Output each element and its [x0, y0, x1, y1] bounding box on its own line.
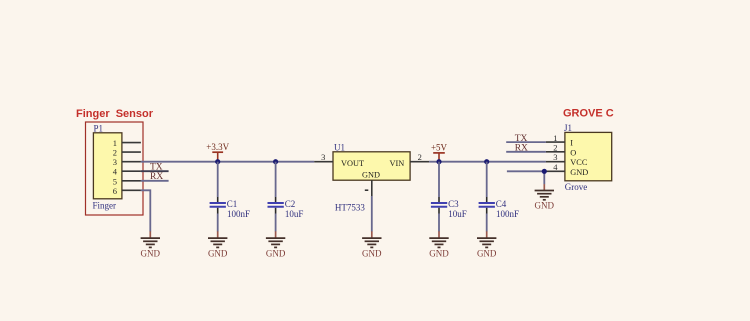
- P1 pin 6: [113, 186, 141, 196]
- J1 pin 4 (GND): [546, 162, 588, 177]
- svg-text:1: 1: [113, 138, 117, 148]
- ground symbol (J1 GND): [535, 184, 555, 211]
- svg-text:1: 1: [553, 133, 557, 143]
- svg-text:+5V: +5V: [431, 143, 448, 153]
- svg-text:GND: GND: [429, 249, 449, 259]
- ground symbol (C2): [266, 231, 286, 258]
- capacitor C3: [431, 162, 467, 232]
- svg-text:GND: GND: [362, 170, 380, 179]
- svg-text:U1: U1: [334, 142, 345, 152]
- wire: TX to J1 pin 1: [506, 141, 546, 143]
- ground symbol (U1): [362, 231, 382, 258]
- J1 pin 3 (VCC): [546, 152, 588, 167]
- wire: U1 GND pin to ground: [371, 196, 373, 232]
- svg-text:100nF: 100nF: [496, 209, 519, 219]
- svg-text:GND: GND: [362, 249, 382, 259]
- svg-text:HT7533: HT7533: [335, 202, 365, 212]
- svg-text:GND: GND: [208, 249, 228, 259]
- svg-text:3: 3: [553, 152, 557, 162]
- svg-text:6: 6: [113, 186, 117, 196]
- svg-text:2: 2: [113, 148, 117, 158]
- ground symbol (C1): [208, 231, 228, 258]
- wire: J1 pin 4 to ground: [507, 171, 546, 184]
- junction node at C4: [484, 159, 489, 164]
- svg-text:100nF: 100nF: [227, 209, 250, 219]
- svg-text:TX: TX: [150, 163, 163, 173]
- junction node at J1 pin 4: [542, 169, 547, 174]
- P1 pin 5: [113, 176, 141, 186]
- svg-text:3: 3: [113, 157, 117, 167]
- svg-text:Grove: Grove: [565, 182, 588, 192]
- wire: P1 pin 6 to ground: [141, 190, 150, 231]
- svg-text:RX: RX: [515, 144, 528, 154]
- svg-text:Finger: Finger: [93, 201, 117, 211]
- junction node at C1: [215, 159, 220, 164]
- capacitor C2: [268, 162, 304, 232]
- svg-text:10uF: 10uF: [285, 209, 304, 219]
- P1 pin 1: [113, 138, 141, 148]
- ground symbol (C3): [429, 231, 449, 258]
- svg-text:GND: GND: [266, 249, 286, 259]
- svg-text:GROVE C: GROVE C: [563, 108, 614, 120]
- svg-text:P1: P1: [94, 124, 104, 134]
- svg-text:Finger Sensor: Finger Sensor: [76, 108, 154, 120]
- wire: RX net from P1 pin 5: [141, 180, 169, 182]
- svg-text:J1: J1: [564, 123, 572, 133]
- U1 pin 2 (VIN): [410, 152, 429, 162]
- power symbol +3.3V: [206, 142, 229, 162]
- svg-text:2: 2: [553, 143, 557, 153]
- svg-text:C4: C4: [496, 199, 507, 209]
- svg-text:VOUT: VOUT: [341, 159, 364, 168]
- U1 pin 1 (GND): [365, 180, 372, 196]
- ground symbol (C4): [477, 231, 497, 258]
- svg-text:O: O: [570, 148, 576, 157]
- junction node at C3 (+5V): [436, 159, 441, 164]
- svg-text:+3.3V: +3.3V: [206, 142, 229, 152]
- svg-text:5: 5: [113, 176, 117, 186]
- regulator U1 body: [333, 152, 410, 180]
- capacitor C1: [210, 162, 250, 232]
- J1 pin 2 (O): [546, 143, 576, 158]
- ground symbol (P1 pin 6): [141, 231, 161, 258]
- connector P1 boundary box: [86, 122, 144, 215]
- svg-text:GND: GND: [477, 249, 497, 259]
- svg-text:GND: GND: [141, 249, 161, 259]
- svg-text:GND: GND: [570, 168, 588, 177]
- svg-text:3: 3: [321, 152, 325, 162]
- svg-text:TX: TX: [515, 134, 528, 144]
- power symbol +5V: [431, 143, 448, 162]
- P1 pin 4: [113, 167, 141, 177]
- wire: RX to J1 pin 2: [506, 151, 546, 153]
- svg-text:I: I: [570, 139, 573, 148]
- connector P1 body: [93, 133, 122, 199]
- wire: +3.3V rail (P1 pin 3 to U1 VOUT): [141, 161, 314, 163]
- svg-text:RX: RX: [150, 172, 163, 182]
- svg-text:C1: C1: [227, 199, 238, 209]
- capacitor C4: [479, 162, 519, 232]
- svg-text:2: 2: [418, 152, 422, 162]
- svg-text:VIN: VIN: [390, 159, 405, 168]
- U1 pin 3 (VOUT): [314, 152, 333, 162]
- connector J1 body: [565, 132, 612, 180]
- svg-text:C3: C3: [448, 199, 459, 209]
- P1 pin 2: [113, 148, 141, 158]
- svg-text:C2: C2: [285, 199, 296, 209]
- svg-text:GND: GND: [535, 201, 555, 211]
- svg-text:10uF: 10uF: [448, 209, 467, 219]
- svg-text:4: 4: [553, 162, 558, 172]
- wire: TX net from P1 pin 4: [141, 170, 169, 172]
- wire: +5V rail (U1 VIN to J1 VCC): [429, 161, 546, 163]
- P1 pin 3: [113, 157, 141, 167]
- J1 pin 1 (I): [546, 133, 573, 148]
- svg-text:VCC: VCC: [570, 158, 588, 167]
- junction node at C2: [273, 159, 278, 164]
